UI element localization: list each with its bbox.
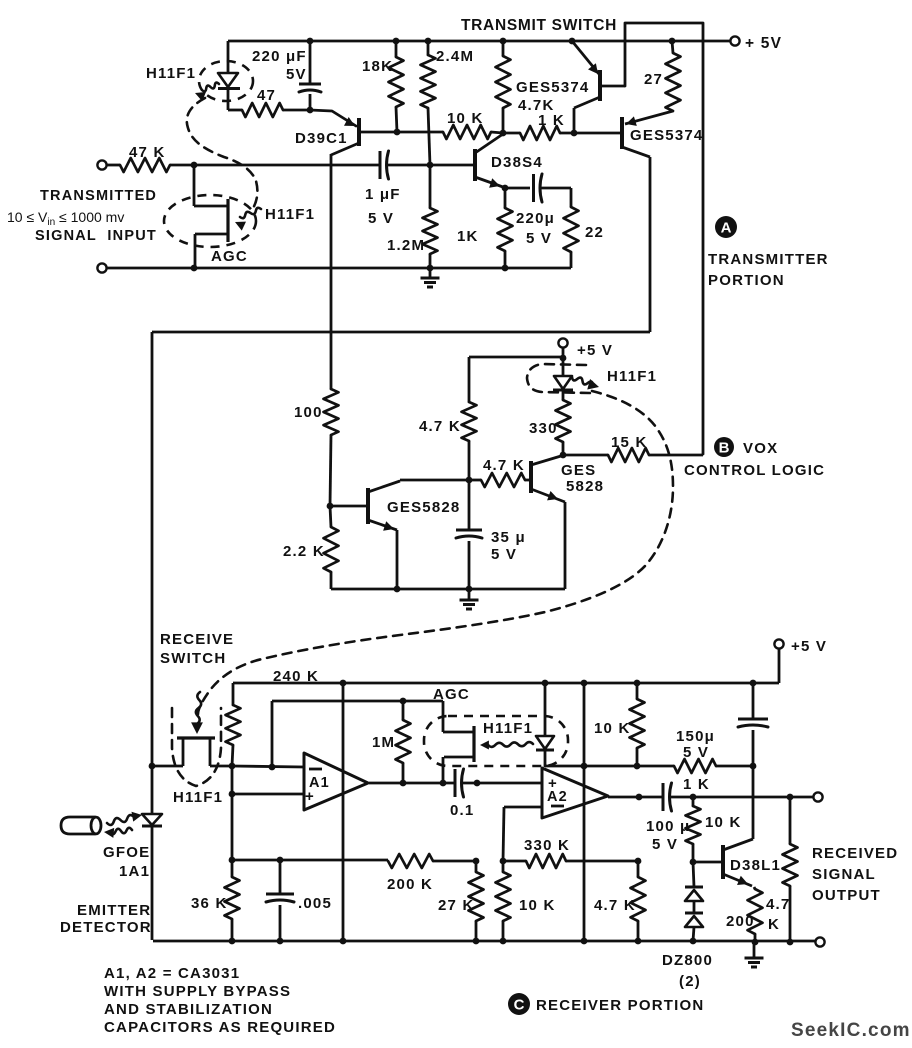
svg-text:330 K: 330 K xyxy=(524,837,570,854)
resistor 1K emitter xyxy=(504,188,507,208)
svg-text:1.2M: 1.2M xyxy=(387,237,425,254)
resistor 1K receiver xyxy=(674,759,716,773)
node GES5828 base xyxy=(327,503,334,510)
svg-text:2.4M: 2.4M xyxy=(436,48,474,65)
node 1K bottom xyxy=(502,265,509,272)
wire supply column 343 xyxy=(342,683,345,941)
svg-text:5V: 5V xyxy=(286,66,307,83)
capacitor .005 xyxy=(279,860,282,894)
LED H11F1 VOX xyxy=(562,358,565,376)
node 240K bottom xyxy=(229,763,236,770)
resistor 10K receiver top xyxy=(636,683,639,699)
node 27 top xyxy=(669,38,676,45)
node AGC junction xyxy=(191,265,198,272)
resistor 4.7K GES5374 xyxy=(502,41,505,56)
transistor D38L1 xyxy=(721,845,725,879)
resistor 10K feedback xyxy=(502,861,505,872)
node 1uF / 2.4M / 1.2M junction xyxy=(427,162,434,169)
svg-text:H11F1: H11F1 xyxy=(146,65,196,82)
svg-text:DETECTOR: DETECTOR xyxy=(60,919,152,936)
dashed enclosure H11F1 AGC xyxy=(424,716,568,766)
resistor 4.7K vertical VOX xyxy=(468,357,471,402)
node 330K right / 4.7K top xyxy=(635,858,642,865)
svg-text:10 K: 10 K xyxy=(519,897,556,914)
svg-text:27 K: 27 K xyxy=(438,897,475,914)
svg-text:PORTION: PORTION xyxy=(708,272,785,289)
wire mid row receiver xyxy=(232,859,388,862)
bullet B xyxy=(714,437,734,457)
transistor D39C1 xyxy=(357,118,361,146)
bullet C xyxy=(508,993,530,1015)
wire column 584 xyxy=(583,683,586,942)
bullet A xyxy=(715,216,737,238)
transistor GES5828 Q3 xyxy=(366,488,370,524)
svg-text:+5 V: +5 V xyxy=(791,638,827,655)
svg-text:SIGNAL: SIGNAL xyxy=(812,866,876,883)
svg-text:18K: 18K xyxy=(362,58,393,75)
svg-text:CONTROL LOGIC: CONTROL LOGIC xyxy=(684,462,825,479)
resistor 330 xyxy=(556,400,571,442)
svg-text:SIGNAL INPUT: SIGNAL INPUT xyxy=(35,228,157,244)
dashed link to input H11F1 xyxy=(187,98,258,210)
wire input bottom line xyxy=(107,267,571,270)
arrow light GFOE up xyxy=(107,815,134,825)
svg-text:B: B xyxy=(719,440,730,457)
svg-text:0.1: 0.1 xyxy=(450,802,474,819)
capacitor 100u xyxy=(662,783,665,811)
resistor 330K xyxy=(503,860,526,863)
node 4.7K bottom xyxy=(787,939,794,946)
arrow light H11F1 upper xyxy=(202,83,219,92)
svg-text:A2: A2 xyxy=(547,789,568,805)
svg-text:WITH SUPPLY BYPASS: WITH SUPPLY BYPASS xyxy=(104,983,291,1000)
LED H11F1 opto LED (transmit) xyxy=(218,73,238,87)
svg-text:GES5374: GES5374 xyxy=(516,79,589,96)
wire receive line horizontal xyxy=(152,331,650,334)
terminal +5V receiver xyxy=(774,639,783,648)
svg-text:200 K: 200 K xyxy=(387,876,433,893)
svg-text:150μ: 150μ xyxy=(676,728,715,745)
wire input signal line xyxy=(194,164,381,167)
ground input xyxy=(429,268,432,278)
node 10K-fb top xyxy=(500,858,507,865)
svg-text:+5 V: +5 V xyxy=(577,342,613,359)
svg-text:5 V: 5 V xyxy=(683,744,709,761)
node 18K top xyxy=(393,38,400,45)
svg-text:10 K: 10 K xyxy=(705,814,742,831)
resistor 18K xyxy=(395,41,398,57)
svg-text:(2): (2) xyxy=(679,973,701,990)
wire to +5V VOX xyxy=(469,356,563,359)
node .005 top xyxy=(277,857,284,864)
wire VOX bottom rail xyxy=(331,588,565,591)
node 100u right / 10K top xyxy=(690,794,697,801)
svg-text:AND STABILIZATION: AND STABILIZATION xyxy=(104,1001,273,1018)
resistor 1M xyxy=(402,701,405,720)
capacitor 150u bypass xyxy=(752,683,755,719)
svg-text:200: 200 xyxy=(726,913,755,930)
svg-text:AGC: AGC xyxy=(211,248,248,265)
node 150u top xyxy=(750,680,757,687)
photoFET H11F1 input (staircase) xyxy=(193,165,196,206)
dashed enclosure H11F1 upper LED xyxy=(199,61,253,101)
wire receive line down left xyxy=(151,332,154,766)
resistor 27 xyxy=(672,41,673,53)
svg-text:5828: 5828 xyxy=(566,478,604,495)
svg-text:OUTPUT: OUTPUT xyxy=(812,887,881,904)
node plus input column xyxy=(229,791,236,798)
wire D39C1 collector down xyxy=(330,154,333,389)
svg-text:4.7 K: 4.7 K xyxy=(483,457,525,474)
svg-text:TRANSMITTER: TRANSMITTER xyxy=(708,251,829,268)
svg-text:VOX: VOX xyxy=(743,440,778,457)
svg-text:GES: GES xyxy=(561,462,596,479)
op-amp A2 xyxy=(542,768,608,818)
svg-text:2.2 K: 2.2 K xyxy=(283,543,325,560)
svg-text:GES5374: GES5374 xyxy=(630,127,703,144)
ground receiver xyxy=(753,941,756,958)
wire inverting input A1 xyxy=(232,766,304,767)
svg-text:330: 330 xyxy=(529,420,558,437)
node 2.4M top xyxy=(425,38,432,45)
wire top +5V rail xyxy=(228,40,730,43)
photoFET H11F1 AGC (staircase) xyxy=(442,701,445,732)
wire base D38S4 xyxy=(430,164,475,167)
resistor 27K xyxy=(475,861,478,872)
arrow light H11F1 VOX xyxy=(572,377,593,385)
svg-text:TRANSMITTED: TRANSMITTED xyxy=(40,188,157,204)
node 27K top xyxy=(473,858,480,865)
node inv input xyxy=(269,764,276,771)
resistor 36K xyxy=(225,877,240,919)
node emitter Q3 bottom xyxy=(394,586,401,593)
node column 584 top xyxy=(581,680,588,687)
arrow light GFOE down xyxy=(110,828,132,834)
terminal input top xyxy=(97,160,106,169)
dashed enclosure H11F1 receive xyxy=(172,708,221,786)
node AGC FET bottom xyxy=(440,780,447,787)
svg-text:.005: .005 xyxy=(298,895,332,912)
node 10K bottom receiver xyxy=(634,763,641,770)
node 330 bottom / collector xyxy=(560,452,567,459)
svg-text:H11F1: H11F1 xyxy=(265,206,315,223)
diode DZ800 #2 xyxy=(693,901,696,913)
wire collector row xyxy=(399,480,402,481)
svg-text:H11F1: H11F1 xyxy=(607,368,657,385)
node 1M top xyxy=(400,698,407,705)
node 1K / GES5374 collector junction xyxy=(571,130,578,137)
svg-text:15 K: 15 K xyxy=(611,434,648,451)
transistor D38S4 xyxy=(473,149,477,181)
LED H11F1 AGC xyxy=(544,683,547,736)
wire AGC row xyxy=(272,700,443,703)
diode DZ800 #1 xyxy=(693,862,694,887)
wire A2 output row xyxy=(608,796,663,799)
svg-text:GES5828: GES5828 xyxy=(387,499,460,516)
resistor 240K xyxy=(232,683,235,705)
resistor 200K xyxy=(388,854,433,868)
node 200 bottom xyxy=(752,939,759,946)
svg-text:K: K xyxy=(768,916,780,933)
node 10K top xyxy=(634,680,641,687)
arrow receive switch xyxy=(196,692,201,724)
resistor 47K xyxy=(107,164,120,167)
svg-text:C: C xyxy=(514,997,525,1014)
svg-text:5 V: 5 V xyxy=(652,836,678,853)
svg-text:SWITCH: SWITCH xyxy=(160,650,226,667)
svg-text:H11F1: H11F1 xyxy=(483,720,533,737)
svg-text:5 V: 5 V xyxy=(368,210,394,227)
wire feedback up xyxy=(271,701,274,767)
svg-text:100 μ: 100 μ xyxy=(646,818,690,835)
node 1.2M bottom xyxy=(427,265,434,272)
svg-text:D38L1: D38L1 xyxy=(730,857,781,874)
svg-text:35 μ: 35 μ xyxy=(491,529,526,546)
resistor 2.2K xyxy=(330,506,331,527)
node 36K top xyxy=(229,857,236,864)
resistor 1.2M xyxy=(429,165,432,208)
svg-text:SeekIC.com: SeekIC.com xyxy=(791,1020,911,1041)
resistor 22 xyxy=(570,188,573,207)
svg-text:36 K: 36 K xyxy=(191,895,228,912)
node 10K/4.7K/1K junction xyxy=(500,130,507,137)
capacitor 220uF xyxy=(309,41,312,84)
wire receiver +5V rail xyxy=(233,682,779,685)
resistor 1K collector row xyxy=(520,126,560,140)
wire emitter D38S4 node xyxy=(504,187,507,189)
wire plus input A1 xyxy=(232,793,304,796)
wire H11F1 LED branch top xyxy=(227,41,230,73)
svg-text:1M: 1M xyxy=(372,734,395,751)
resistor 2.4M xyxy=(427,41,430,55)
resistor 15K xyxy=(563,454,608,457)
svg-text:4.7 K: 4.7 K xyxy=(419,418,461,435)
svg-text:1A1: 1A1 xyxy=(119,863,150,880)
svg-text:1 μF: 1 μF xyxy=(365,186,401,203)
node 220uF/47 junction xyxy=(307,38,314,45)
emitter fiber GFOE xyxy=(61,817,95,834)
node output row pre-cap xyxy=(636,794,643,801)
node column 343 top xyxy=(340,680,347,687)
wire receiver ground rail xyxy=(153,940,816,943)
svg-text:240 K: 240 K xyxy=(273,668,319,685)
node 1M bottom xyxy=(400,780,407,787)
svg-text:DZ800: DZ800 xyxy=(662,952,713,969)
resistor 4.7K output xyxy=(789,797,792,844)
transistor GES5374 Q1 xyxy=(598,70,602,101)
ground VOX xyxy=(468,589,471,600)
svg-text:H11F1: H11F1 xyxy=(173,789,223,806)
svg-text:RECEIVER PORTION: RECEIVER PORTION xyxy=(536,997,704,1014)
capacitor 1uF xyxy=(379,151,382,179)
dashed enclosure H11F1 VOX xyxy=(527,364,590,393)
arrow light H11F1 AGC xyxy=(488,742,533,747)
transistor GES5374 Q2 xyxy=(620,117,624,149)
node receive line junction xyxy=(149,763,156,770)
dashed enclosure H11F1 input xyxy=(164,195,256,247)
svg-text:RECEIVE: RECEIVE xyxy=(160,631,234,648)
node input/H11F1 junction xyxy=(191,162,198,169)
svg-text:5 V: 5 V xyxy=(491,546,517,563)
node 4.7K bottom junction xyxy=(466,477,473,484)
terminal input bottom xyxy=(97,263,106,272)
svg-text:1 K: 1 K xyxy=(683,776,710,793)
resistor 4.7K horizontal VOX xyxy=(469,479,481,482)
wire A2 plus node row xyxy=(545,765,674,768)
terminal +5V VOX xyxy=(558,338,567,347)
terminal output top xyxy=(813,792,822,801)
node +5V VOX xyxy=(560,355,567,362)
svg-text:4.7: 4.7 xyxy=(766,896,790,913)
svg-text:A: A xyxy=(721,220,732,237)
svg-text:CAPACITORS AS REQUIRED: CAPACITORS AS REQUIRED xyxy=(104,1019,336,1036)
node output tap xyxy=(787,794,794,801)
svg-text:A1, A2 = CA3031: A1, A2 = CA3031 xyxy=(104,965,240,982)
photodiode GFOE 1A1 xyxy=(151,766,154,814)
node 150u cap column xyxy=(750,763,757,770)
node 0.1 right xyxy=(474,780,481,787)
wire column 232 down xyxy=(231,766,234,877)
resistor 47 xyxy=(228,109,242,112)
node 18K bottom / D39C1 base xyxy=(394,129,401,136)
svg-text:220μ: 220μ xyxy=(516,210,555,227)
svg-text:TRANSMIT SWITCH: TRANSMIT SWITCH xyxy=(461,17,617,34)
resistor 10K base row xyxy=(397,131,443,134)
resistor 200 xyxy=(748,889,763,934)
svg-text:D38S4: D38S4 xyxy=(491,154,543,171)
svg-text:4.7 K: 4.7 K xyxy=(594,897,636,914)
node 35u bottom xyxy=(466,586,473,593)
node A2 rail mid xyxy=(581,763,588,770)
svg-text:10 K: 10 K xyxy=(594,720,631,737)
svg-text:EMITTER: EMITTER xyxy=(77,902,151,919)
terminal output bottom xyxy=(815,937,824,946)
terminal +5V transmitter xyxy=(730,36,739,45)
svg-text:RECEIVED: RECEIVED xyxy=(812,845,898,862)
svg-text:5 V: 5 V xyxy=(526,230,552,247)
resistor 10K output xyxy=(692,797,695,806)
resistor 100 xyxy=(324,389,339,435)
svg-text:47: 47 xyxy=(257,87,276,104)
resistor 4.7K feedback xyxy=(637,861,640,877)
node 4.7K top xyxy=(500,38,507,45)
node D38L1 base xyxy=(690,859,697,866)
svg-text:D39C1: D39C1 xyxy=(295,130,348,147)
node GES5374 Q1 emitter at rail xyxy=(569,38,576,45)
wire A2 inverting loop xyxy=(504,806,542,809)
svg-text:22: 22 xyxy=(585,224,604,241)
svg-text:100: 100 xyxy=(294,404,323,421)
node LED AGC top xyxy=(542,680,549,687)
svg-text:+ 5V: + 5V xyxy=(745,35,782,52)
svg-text:+: + xyxy=(305,788,315,805)
svg-text:47 K: 47 K xyxy=(129,144,166,161)
photoFET H11F1 receive (staircase) xyxy=(152,765,183,768)
svg-text:10 K: 10 K xyxy=(447,110,484,127)
svg-text:220 μF: 220 μF xyxy=(252,48,307,65)
wire A1 output row xyxy=(369,782,455,785)
op-amp A1 xyxy=(304,753,368,810)
capacitor 35u xyxy=(468,480,471,530)
transistor GES5828 Q4 xyxy=(529,461,533,493)
svg-text:AGC: AGC xyxy=(433,686,470,703)
capacitor 0.1 xyxy=(454,769,457,797)
svg-text:1 K: 1 K xyxy=(538,112,565,129)
svg-text:GFOE: GFOE xyxy=(103,844,150,861)
dashed VOX to receive switch curve xyxy=(198,391,673,714)
node ground rail dots xyxy=(229,938,236,945)
svg-text:27: 27 xyxy=(644,71,663,88)
arrow light H11F1 input xyxy=(240,208,261,218)
capacitor 220u bypass xyxy=(505,187,530,190)
wire D38L1 collector xyxy=(752,766,755,839)
wire transmit switch loop xyxy=(625,23,703,454)
svg-text:1K: 1K xyxy=(457,228,479,245)
